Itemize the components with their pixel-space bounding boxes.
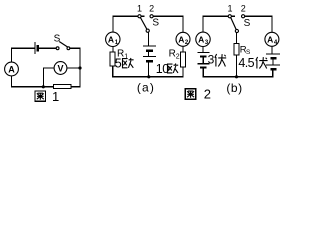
ammeter A2 <box>176 32 190 46</box>
resistor R1 <box>110 52 115 66</box>
contact 1 (b) <box>228 15 231 18</box>
wire top-right (a) <box>153 16 183 32</box>
svg-text:1: 1 <box>227 4 232 14</box>
wire battery to switch <box>38 47 57 49</box>
battery (b right) cell1 short plate <box>270 57 276 59</box>
wire battery to bottom-left corner (b) <box>203 69 236 77</box>
battery (a) cell1 long plate <box>143 45 156 47</box>
resistor Rs <box>234 44 239 56</box>
label OU hanzi (R2 value) <box>168 64 179 73</box>
svg-text:2: 2 <box>149 4 154 14</box>
battery (b right) cell1 long plate <box>266 53 280 55</box>
label TU hanzi of fig2 caption <box>185 89 196 100</box>
wire dot to resistor <box>43 86 53 88</box>
switch S1 blade <box>59 42 67 48</box>
battery (b right) inter-cell wire <box>272 59 274 64</box>
svg-text:A: A <box>198 35 204 45</box>
contact 2 (a) <box>150 15 153 18</box>
svg-text:A: A <box>8 64 15 74</box>
switch pivot (a) <box>146 29 149 32</box>
wire voltmeter branch left <box>43 68 54 87</box>
svg-text:1: 1 <box>124 53 128 60</box>
contact stub (a) <box>141 15 145 17</box>
battery (b right) cell2 long plate <box>266 64 280 66</box>
svg-text:(b): (b) <box>226 81 242 95</box>
svg-text:S: S <box>244 18 251 29</box>
wire pivot to Rs <box>236 33 238 44</box>
node junction dot bottom <box>42 85 45 88</box>
svg-text:A: A <box>267 35 273 45</box>
svg-text:R: R <box>169 48 176 59</box>
resistor R2 <box>181 52 186 67</box>
ammeter A <box>5 62 19 76</box>
wire R1 to bottom-left corner (a) <box>113 66 149 77</box>
battery (b left) cell2 short plate <box>200 66 207 68</box>
wire A4 to battery (b right) <box>271 46 273 53</box>
svg-text:2: 2 <box>241 4 246 14</box>
wire voltmeter to right wire <box>67 67 80 69</box>
battery (b left) cell1 short plate <box>200 55 207 57</box>
battery (b left) inter-cell wire <box>202 58 204 64</box>
battery (a) cell1 short plate <box>146 50 153 52</box>
svg-text:2: 2 <box>204 87 211 102</box>
switch S1 right contact <box>67 47 70 50</box>
wire ammeter to bottom-left corner <box>12 76 44 87</box>
battery B1 long plate <box>34 42 36 54</box>
contact 2 (b) <box>242 15 245 18</box>
node junction dot (a) <box>147 75 150 78</box>
wire battery to bottom (a) <box>147 62 149 77</box>
svg-text:S: S <box>152 18 159 29</box>
battery (a) inter-cell wire <box>147 52 149 57</box>
node junction dot (b) <box>235 75 238 78</box>
svg-text:2: 2 <box>176 53 180 60</box>
wire right side <box>79 68 81 87</box>
label TU hanzi of fig1 caption <box>35 91 46 101</box>
svg-text:5: 5 <box>115 56 122 70</box>
svg-text:1: 1 <box>52 89 59 104</box>
battery B1 short plate <box>37 45 39 52</box>
battery (a) cell2 long plate <box>143 56 156 58</box>
ammeter A4 <box>265 32 279 46</box>
switch blade (a) <box>140 18 146 30</box>
battery (b left) cell2 long plate <box>197 63 209 65</box>
wire R2 to bottom-right corner (a) <box>149 67 183 77</box>
svg-text:1: 1 <box>137 4 142 14</box>
wire top-right (b) <box>245 16 272 32</box>
switch S1 left contact <box>56 47 59 50</box>
svg-text:(a): (a) <box>137 81 155 95</box>
battery (b right) cell2 short plate <box>270 68 276 70</box>
wire pivot to battery (a) <box>147 32 149 46</box>
wire top-left <box>12 48 36 62</box>
wire battery to bottom-right corner (b) <box>237 70 273 76</box>
wire A1 to R1 <box>112 47 114 53</box>
svg-text:A: A <box>178 35 184 45</box>
svg-text:3: 3 <box>208 53 215 67</box>
battery (b left) cell1 long plate <box>197 51 209 53</box>
contact 1 (a) <box>138 15 141 18</box>
wire top-left (a) <box>113 16 138 32</box>
svg-text:4.5: 4.5 <box>238 56 254 70</box>
contact stub (b) <box>231 15 235 17</box>
battery (a) cell2 short plate <box>146 60 153 62</box>
voltmeter V <box>54 62 67 75</box>
switch pivot (b) <box>235 29 238 32</box>
wire A3 to battery (b left) <box>202 47 204 53</box>
wire Rs to bottom (b) <box>236 55 238 77</box>
svg-text:S: S <box>54 34 61 45</box>
svg-text:V: V <box>57 63 63 73</box>
ammeter A3 <box>196 32 210 46</box>
label FU hanzi (4.5 volt) <box>256 57 268 69</box>
wire switch to top-right corner <box>70 48 80 66</box>
ammeter A1 <box>106 32 120 46</box>
wire resistor to bottom-right corner <box>71 86 80 88</box>
node junction dot right <box>78 66 81 69</box>
svg-text:A: A <box>108 35 114 45</box>
label OU hanzi (R1 value) <box>123 58 134 68</box>
wire top-left (b) <box>203 16 228 32</box>
resistor R (fig1) <box>54 85 72 89</box>
wire A2 to R2 <box>182 46 184 52</box>
label FU hanzi (3 volt) <box>215 54 226 67</box>
switch blade (b) <box>231 18 236 30</box>
